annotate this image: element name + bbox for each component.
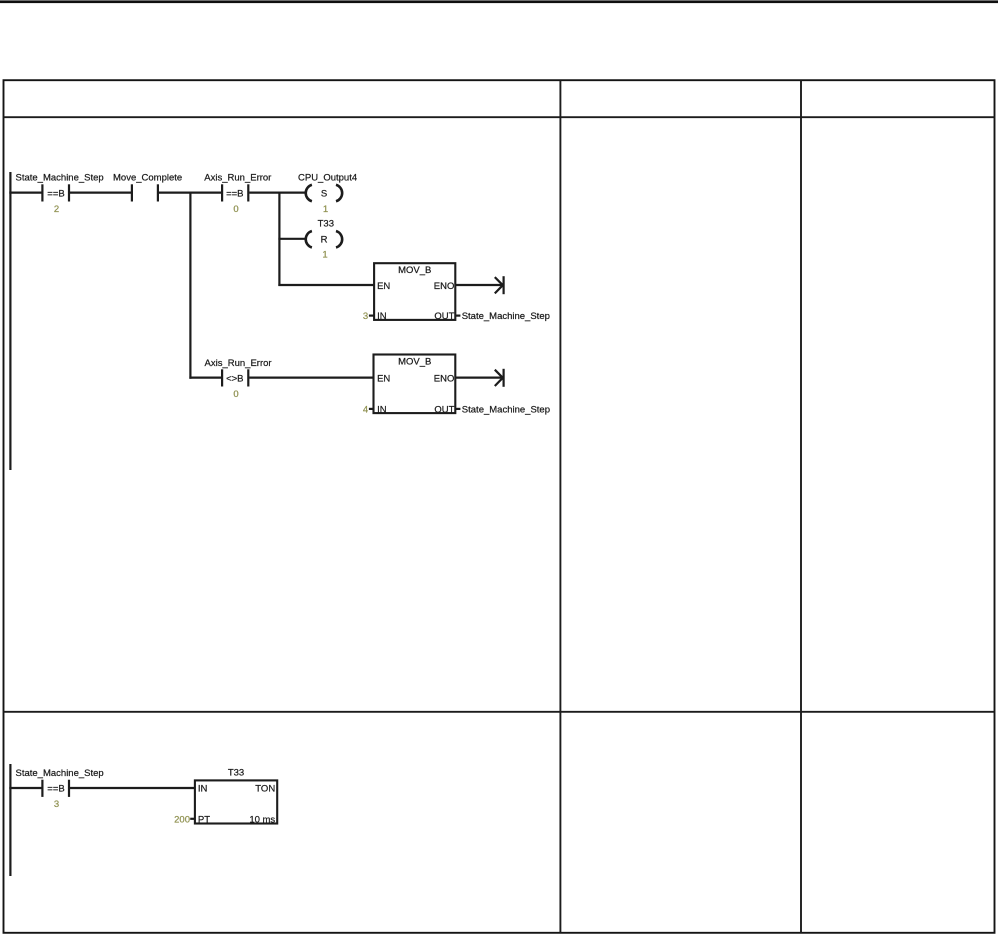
svg-text:==B: ==B (47, 188, 64, 199)
svg-text:Axis_Run_Error: Axis_Run_Error (204, 173, 271, 184)
wire tick U2 IN (369, 408, 374, 410)
coil S CPU_Output4 (306, 185, 342, 202)
wire tick U1 IN (369, 315, 374, 317)
svg-text:4: 4 (363, 405, 368, 416)
branch wire vertical 1 (189, 192, 191, 379)
svg-text:State_Machine_Step: State_Machine_Step (16, 173, 104, 184)
function block U2 MOV_B (374, 355, 456, 416)
wire X5 to timer T33 (70, 787, 196, 789)
rung 1 left power rail (9, 172, 11, 470)
wire X4 to U2 EN (249, 377, 374, 379)
wire X1 to X2 (70, 192, 131, 194)
svg-text:T33: T33 (318, 219, 334, 230)
wire branch2 to coil R (278, 238, 305, 240)
svg-text:IN: IN (377, 311, 387, 322)
wire rail to contact X1 (9, 192, 41, 194)
svg-text:3: 3 (363, 311, 368, 322)
svg-text:T33: T33 (228, 768, 244, 779)
table column divider 1 (559, 80, 561, 933)
svg-text:IN: IN (377, 405, 387, 416)
svg-text:OUT: OUT (434, 405, 454, 416)
arrow rung continuation 1 (495, 276, 504, 294)
svg-text:Axis_Run_Error: Axis_Run_Error (205, 358, 272, 369)
table header bottom line (4, 116, 995, 118)
svg-text:CPU_Output4: CPU_Output4 (298, 173, 357, 184)
svg-text:PT: PT (198, 815, 210, 826)
svg-text:State_Machine_Step: State_Machine_Step (462, 405, 550, 416)
svg-text:10 ms: 10 ms (249, 815, 275, 826)
wire U2 ENO to arrow (455, 377, 502, 379)
svg-text:EN: EN (377, 281, 390, 292)
svg-text:==B: ==B (226, 188, 243, 199)
svg-text:Move_Complete: Move_Complete (113, 173, 182, 184)
contact X5 State_Machine_Step ==B (42, 780, 69, 797)
svg-text:State_Machine_Step: State_Machine_Step (462, 311, 550, 322)
wire U1 ENO to arrow (455, 284, 502, 286)
coil R T33 (306, 231, 342, 248)
table row divider (4, 711, 995, 713)
svg-text:MOV_B: MOV_B (398, 356, 431, 367)
svg-text:EN: EN (377, 373, 390, 384)
wire tick T33 PT (190, 818, 195, 820)
svg-text:3: 3 (54, 799, 59, 810)
timer T33 TON box (195, 780, 277, 825)
wire tick U1 OUT (455, 315, 460, 317)
svg-text:200: 200 (174, 815, 190, 826)
arrow rung continuation 2 (495, 369, 504, 387)
wire rail to contact X5 (9, 787, 41, 789)
function block U1 MOV_B (374, 263, 455, 322)
svg-text:ENO: ENO (434, 373, 455, 384)
wire branch2 to MOV_B U1 EN (278, 284, 374, 286)
svg-text:MOV_B: MOV_B (398, 265, 431, 276)
svg-text:0: 0 (233, 389, 238, 400)
wire tick U2 OUT (455, 408, 460, 410)
svg-text:1: 1 (323, 204, 328, 215)
svg-text:1: 1 (322, 250, 327, 261)
svg-text:ENO: ENO (434, 281, 455, 292)
rung 2 left power rail (9, 764, 11, 876)
svg-text:0: 0 (233, 204, 238, 215)
wire X2 to X3 (159, 192, 222, 194)
svg-text:==B: ==B (47, 784, 64, 795)
svg-text:IN: IN (198, 784, 208, 795)
svg-text:OUT: OUT (434, 311, 454, 322)
svg-text:TON: TON (255, 784, 275, 795)
svg-text:<>B: <>B (226, 373, 243, 384)
contact X3 Axis_Run_Error ==B (222, 184, 248, 201)
contact X4 Axis_Run_Error <>B (222, 369, 248, 386)
table column divider 2 (800, 80, 802, 933)
contact X1 State_Machine_Step ==B (42, 184, 69, 201)
branch wire vertical 2 (278, 192, 280, 286)
wire branch1 to contact X4 (189, 377, 221, 379)
svg-text:R: R (321, 235, 328, 246)
contact X2 Move_Complete (132, 184, 158, 201)
svg-text:State_Machine_Step: State_Machine_Step (16, 768, 104, 779)
svg-text:2: 2 (54, 204, 59, 215)
top page rule (0, 0, 998, 3)
svg-text:S: S (321, 188, 327, 199)
wire X3 to coil S (249, 192, 305, 194)
